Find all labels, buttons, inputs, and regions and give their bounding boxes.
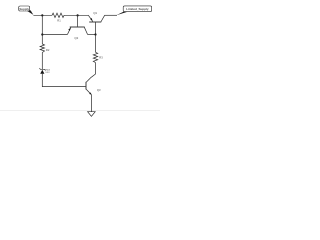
svg-text:R3: R3 [99, 56, 103, 60]
wire R1 to Q1 emitter [64, 14, 88, 16]
wire R3 to Q3 collector [91, 63, 95, 78]
wire zener to bottom corner then right to Q3 base [42, 74, 85, 87]
wire junction to R3 [95, 35, 97, 53]
wire Q1 collector to Limited_Supply [105, 14, 117, 16]
svg-text:3.3V: 3.3V [45, 72, 50, 74]
transistor Q3 (NPN) [86, 77, 101, 95]
svg-text:Limited_Supply: Limited_Supply [126, 7, 149, 11]
svg-text:Q2: Q2 [74, 36, 78, 40]
resistor R3 [93, 52, 97, 62]
node junction dot left top [41, 14, 43, 16]
svg-text:R1: R1 [57, 18, 61, 22]
svg-text:Q1: Q1 [93, 11, 97, 15]
wire top left segment [33, 14, 52, 16]
flag pointer of Supply label [26, 10, 33, 15]
ground [88, 112, 96, 117]
resistor R1 [52, 13, 64, 17]
sheet border bottom line [0, 110, 160, 112]
node junction dot left middle [41, 33, 43, 35]
flag pointer of Limited_Supply label [116, 12, 127, 16]
wire Q2 collector to junction [88, 34, 96, 36]
wire Q2 emitter horizontal [42, 34, 67, 36]
net label Supply [19, 6, 30, 11]
net label Limited_Supply [123, 6, 152, 12]
left vertical wire upper [41, 15, 43, 44]
node junction dot Q2 base [77, 14, 79, 16]
svg-text:R2: R2 [46, 48, 50, 52]
transistor Q2 (PNP) [67, 15, 87, 40]
transistor Q1 (PNP) [88, 11, 105, 35]
node junction dot Q1 base / R3 [94, 33, 96, 35]
resistor R2 [40, 44, 44, 53]
svg-text:Q3: Q3 [97, 88, 101, 92]
svg-text:Supply: Supply [19, 7, 29, 11]
wire Q3 emitter to ground [90, 95, 92, 112]
zener diode D4 [40, 68, 51, 74]
wire R2 to zener [41, 53, 43, 70]
